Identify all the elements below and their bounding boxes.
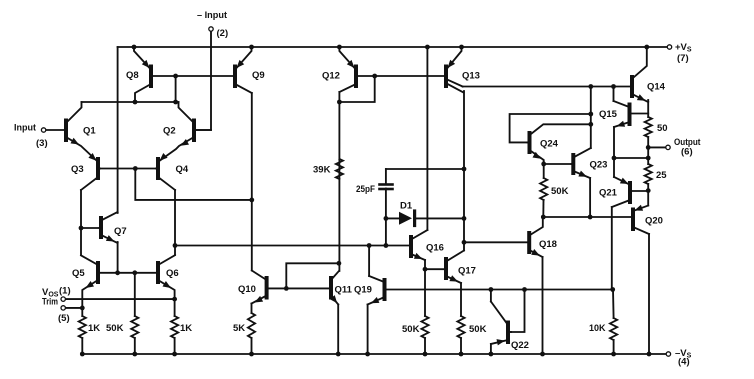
svg-text:Q8: Q8 [126,70,139,81]
transistor Q22 [491,302,511,346]
terminal Vos Trim pin1 [61,297,65,301]
resistor R2 50K tail [131,273,138,354]
wire Q7 emitter vertical [117,242,119,273]
svg-text:D1: D1 [400,201,413,212]
label (2) [217,28,229,39]
svg-text:Input: Input [14,123,37,134]
resistor R5 39K [336,159,343,179]
transistor Q6 [158,255,175,299]
resistor R7 50K mid-left [421,269,428,354]
svg-text:10K: 10K [589,323,606,334]
wire cap/diode branch vertical [385,189,387,246]
transistor Q7 [100,212,118,243]
label -Input [197,10,228,21]
wire Q23 collector vertical [590,87,592,149]
label (3) [36,138,48,149]
diode D1 [399,211,415,226]
label Q2 [163,126,176,137]
svg-text:Q19: Q19 [354,285,372,296]
transistor Q20 [633,205,649,234]
svg-text:Q10: Q10 [238,284,256,295]
label Q9 [252,70,265,81]
wire Q24 emitter to 50K [543,162,545,178]
wire Q22 base vertical [511,290,525,333]
svg-text:Q11: Q11 [335,285,353,296]
wire +Vs rail [118,46,667,48]
wire Q23 emitter vertical [589,178,591,217]
svg-text:Q16: Q16 [426,243,444,254]
wire Q18 emitter vertical [542,257,544,354]
svg-text:Q7: Q7 [114,226,127,237]
terminal +Vs pin7 [667,45,671,49]
transistor Q16 [411,230,427,260]
label 25 ohm [656,170,667,181]
wire Q7 collector to +Vs [117,47,119,213]
wire Q24 base loop [510,114,591,142]
svg-text:50K: 50K [469,324,487,335]
wire Q8-Q9 base link [153,75,233,77]
wire Q13 collector vertical to Q17 [463,91,465,251]
svg-text:Q14: Q14 [647,82,666,93]
wire Q3-Q4 base link [100,168,156,170]
label Q6 [166,268,179,279]
label 39K [313,165,331,176]
svg-text:Q1: Q1 [83,126,96,137]
svg-text:5K: 5K [233,323,245,334]
label (7) [677,53,689,64]
resistor R1 1K left [79,308,86,354]
svg-text:Trim: Trim [42,297,58,308]
resistor R9 50K upper [540,178,547,217]
svg-text:(1): (1) [59,286,71,297]
wire Q12-Q13 base link [358,75,444,77]
svg-text:Q17: Q17 [458,266,476,277]
svg-text:(3): (3) [36,138,48,149]
label Q21 [599,188,618,199]
transistor Q10 [252,271,267,304]
label 25pF [356,184,375,195]
svg-text:Q5: Q5 [72,268,85,279]
wire D1 link left [386,217,400,219]
transistor Q21 [612,177,630,207]
label 50 ohm [657,123,668,134]
label Q17 [458,266,476,277]
terminal Vos Trim pin5 [61,306,65,310]
label (1) [59,286,71,297]
wire Q23 base lead [544,163,571,165]
transistor Q23 [572,148,591,178]
wire Q3Q4 base to Q9Q10 collectors [135,169,252,200]
wire Q12 base-collector tie [339,76,374,102]
wire 50K to Q20 base line [543,216,631,218]
label Q11 [335,285,353,296]
label Q7 [114,226,127,237]
wire Q3 collector to Q5 collector [80,190,82,255]
label 1K left [88,323,100,334]
svg-text:(6): (6) [681,147,693,158]
wire Q15 emitter vertical [613,127,615,177]
wire Q21 base lead [632,190,649,192]
resistor R8 50K mid-right [457,283,464,354]
wire Q22 emitter to -Vs [490,344,492,354]
transistor Q11 [330,271,339,305]
wire Q20 collector to -Vs [648,234,650,354]
label Q8 [126,70,139,81]
svg-text:(4): (4) [678,357,690,368]
label (5) [58,313,70,324]
wire 50-25 mid [647,137,649,164]
wire Q7 base lead [81,227,100,229]
svg-text:(2): (2) [217,28,229,39]
label Q24 [540,139,559,150]
label Q13 [462,71,480,82]
transistor Q24 [528,133,544,162]
label Q23 [590,160,608,171]
svg-text:25pF: 25pF [356,184,375,195]
label 50K mid-left [402,324,420,335]
label 50K tail [106,323,124,334]
svg-text:1K: 1K [180,323,192,334]
label Input [14,123,37,134]
svg-text:(5): (5) [58,313,70,324]
svg-text:25: 25 [656,170,667,181]
resistor R11 50 ohm [645,117,652,137]
svg-text:Q2: Q2 [163,126,176,137]
label Q3 [71,164,84,175]
label Q20 [645,216,663,227]
wire Q1-Q2 collector bus [82,101,179,103]
wire Q8 base-collector tie [175,76,177,102]
wire Q22 collector vertical [490,290,492,302]
wire Q4 collector to Q6 collector [174,190,176,255]
svg-text:50K: 50K [551,186,569,197]
wire Q17 base lead [425,268,444,270]
transistor Q5 [81,255,98,308]
transistor Q15 [614,101,630,127]
wire Q13 collector2 to Q14 base [463,86,630,88]
wire Q10-Q11 base tie to 39K node [286,263,339,288]
label -Vs [675,348,692,360]
terminal Input pin3 [41,128,45,132]
svg-text:50K: 50K [106,323,124,334]
label Q4 [176,164,189,175]
transistor Q9 [235,47,252,93]
svg-text:Q22: Q22 [511,340,529,351]
svg-text:39K: 39K [313,165,331,176]
svg-text:Q15: Q15 [599,109,618,120]
wire Q9-Q10 collector vertical [251,93,253,271]
label Q22 [511,340,529,351]
wire Q15 base lead [632,113,649,115]
label (6) [681,147,693,158]
wire Q11 base lead [286,287,329,289]
label Q12 [322,71,340,82]
wire Q16 collector to +Vs [426,47,428,230]
transistor Q12 [339,47,356,92]
svg-text:Q12: Q12 [322,71,340,82]
wire -Input lead [196,32,211,130]
label Q18 [539,239,557,250]
wire Q18 base lead [464,241,528,243]
label Q14 [647,82,666,93]
resistor R10 10K [610,290,617,355]
transistor Q8 [134,47,151,102]
transistor Q14 [632,47,648,102]
terminal -Input pin2 [209,27,213,31]
wire Q11 emitter vertical [337,305,339,355]
label (4) [678,357,690,368]
svg-text:– Input: – Input [197,10,228,21]
svg-text:Q21: Q21 [599,188,618,199]
label Q15 [599,109,618,120]
wire Q19 collector vertical [368,246,370,277]
label 10K [589,323,606,334]
svg-text:Q9: Q9 [252,70,265,81]
capacitor C1 25pF [380,169,393,189]
label Output [674,137,701,148]
label Q1 [83,126,96,137]
wire Q19 emitter vertical [367,305,369,355]
svg-text:50K: 50K [402,324,420,335]
wire Q24 collector link [531,124,591,134]
wire D1 link right [415,217,464,219]
svg-text:50: 50 [657,123,668,134]
svg-text:Q4: Q4 [176,164,189,175]
label Q19 [354,285,372,296]
label D1 [400,201,413,212]
wire protection node line [386,289,612,291]
label Trim [42,297,58,308]
transistor Q18 [529,217,543,257]
transistor Q4 [156,153,175,190]
label Q10 [238,284,256,295]
transistor Q1 [46,102,97,161]
label 50K upper [551,186,569,197]
svg-text:Q20: Q20 [645,216,663,227]
wire Q5-Q6 base link [100,272,156,274]
svg-text:Q3: Q3 [71,164,84,175]
svg-text:Q6: Q6 [166,268,179,279]
resistor R3 1K right [171,299,178,354]
wire Q15 collector vertical [613,87,615,102]
terminal -Vs pin4 [666,352,670,356]
resistor R4 5K [248,304,255,355]
svg-text:1K: 1K [88,323,100,334]
label 5K [233,323,245,334]
svg-text:Q23: Q23 [590,160,608,171]
transistor Q3 [81,153,100,190]
wire 25 bottom to Q20 emitter [647,184,649,206]
wire Q16 emitter vertical [424,260,426,269]
wire Vos trim pin5 line [66,307,82,309]
label 50K mid-right [469,324,487,335]
svg-text:Q24: Q24 [540,139,559,150]
label 1K right [180,323,192,334]
wire Q10 base lead [269,287,287,289]
label Q5 [72,268,85,279]
wire output stage right vertical upper [647,100,649,117]
wire Vos trim pin1 line [66,298,175,300]
svg-text:Q13: Q13 [462,71,480,82]
terminal Output pin6 [666,145,670,149]
svg-text:Q18: Q18 [539,239,557,250]
svg-text:(7): (7) [677,53,689,64]
node second-stage input line [175,245,409,247]
transistor Q2 [160,102,211,161]
wire output node link [614,157,648,159]
wire Q12 collector to 39K to Q11 [338,92,340,271]
wire output lead [648,146,665,148]
label Q16 [426,243,444,254]
transistor Q13 [446,47,464,93]
wire 25pF top link [386,168,464,170]
transistor Q17 [446,251,464,284]
wire -Vs rail [82,353,666,355]
wire Q21 collector vertical [611,207,613,290]
transistor Q19 [368,276,385,305]
label Vos [42,287,59,299]
resistor R12 25 ohm [645,164,652,184]
label +Vs [675,42,692,54]
